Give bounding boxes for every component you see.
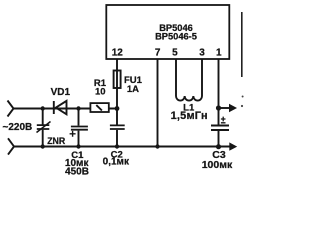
svg-text:450В: 450В	[65, 167, 89, 178]
svg-text:1A: 1A	[127, 84, 139, 95]
svg-text:VD1: VD1	[51, 87, 71, 98]
svg-text:ZNR: ZNR	[47, 136, 66, 146]
svg-text:1,5мГн: 1,5мГн	[171, 110, 208, 122]
svg-text:5: 5	[172, 48, 178, 59]
svg-text:1: 1	[216, 48, 222, 59]
svg-text:7: 7	[155, 48, 161, 59]
svg-text:10: 10	[95, 87, 106, 98]
svg-text:100мк: 100мк	[202, 159, 233, 171]
svg-text:12: 12	[112, 48, 124, 59]
svg-text:~220В: ~220В	[3, 122, 33, 133]
svg-text:3: 3	[199, 48, 205, 59]
svg-text:0,1мк: 0,1мк	[103, 156, 130, 167]
svg-text:BP5046-5: BP5046-5	[155, 32, 197, 42]
